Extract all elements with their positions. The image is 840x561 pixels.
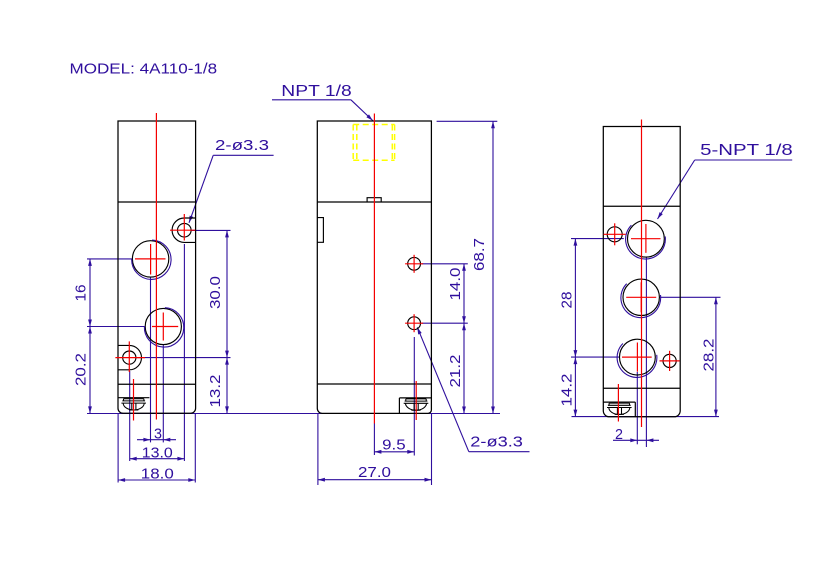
right view body [603, 127, 680, 417]
svg-text:2-ø3.3: 2-ø3.3 [470, 434, 523, 450]
label 2-dia3.3 middle [417, 327, 529, 451]
crosshair RT [631, 224, 661, 253]
thread arc H3 [144, 308, 183, 347]
svg-text:28: 28 [560, 292, 576, 309]
right small hole top-left [607, 227, 622, 242]
dim 2 [613, 258, 659, 448]
thread arc RT [626, 225, 666, 259]
dim 3 [137, 278, 176, 443]
middle left tab [317, 218, 323, 243]
right hole RB big bottom [620, 339, 656, 375]
hole H3 big lower [145, 308, 181, 344]
centerline right view [641, 120, 643, 428]
dim 20.2 [74, 327, 92, 414]
long bottom reference line (left/middle views) [87, 413, 500, 415]
svg-text:16: 16 [74, 285, 90, 302]
svg-text:27.0: 27.0 [358, 465, 391, 481]
crosshair H1 [170, 214, 195, 241]
label NPT 1/8 [272, 83, 373, 120]
svg-text:13.0: 13.0 [142, 446, 173, 462]
crosshair RM [626, 282, 656, 312]
dim 14.2 [560, 357, 578, 417]
centerline left view [155, 113, 157, 420]
dim 27.0 [318, 414, 432, 486]
crosshair M2 [405, 314, 423, 332]
middle view body [317, 121, 431, 413]
dim 21.2 [448, 323, 466, 413]
middle hole M1 [408, 257, 421, 270]
middle top notch [367, 198, 381, 202]
svg-text:21.2: 21.2 [448, 355, 464, 388]
svg-text:20.2: 20.2 [74, 353, 90, 386]
middle view manual override button [399, 398, 431, 413]
right hole RM big middle [623, 279, 659, 315]
dim 9.5 [374, 337, 414, 456]
dim 30.0 [136, 230, 231, 357]
crosshair H3 [152, 313, 178, 341]
svg-text:NPT 1/8: NPT 1/8 [281, 83, 351, 100]
dim 68.7 [437, 121, 498, 413]
crosshair STL [604, 223, 626, 245]
svg-text:68.7: 68.7 [472, 238, 488, 271]
left view body [118, 121, 196, 413]
crosshair RB [622, 343, 652, 372]
dim 14.0 [422, 264, 468, 323]
long bottom reference line (right view) [572, 416, 720, 418]
centerline right button [617, 384, 619, 422]
centerline middle button [415, 381, 417, 420]
crosshair M1 [405, 255, 423, 273]
right small hole bottom-right [663, 354, 676, 367]
svg-text:2: 2 [615, 427, 623, 443]
svg-text:2-ø3.3: 2-ø3.3 [215, 138, 269, 154]
svg-text:14.2: 14.2 [560, 374, 576, 407]
centerline middle view [373, 114, 375, 424]
label 5-NPT 1/8 [658, 142, 793, 219]
svg-text:30.0: 30.0 [208, 276, 224, 309]
crosshair H2 [135, 244, 166, 275]
dim 13.2 [208, 358, 229, 414]
hole H4 small left boss [118, 345, 142, 369]
left view manual override button [118, 398, 149, 410]
svg-text:MODEL: 4A110-1/8: MODEL: 4A110-1/8 [70, 61, 218, 78]
svg-text:18.0: 18.0 [141, 467, 174, 483]
svg-text:9.5: 9.5 [382, 438, 406, 454]
crosshair H4 [115, 341, 145, 372]
dim 13.0 [130, 244, 185, 462]
dim 16 [74, 259, 145, 327]
dim 28 [560, 239, 624, 358]
svg-text:3: 3 [154, 426, 162, 442]
hole H2 big upper [132, 241, 168, 277]
title MODEL: 4A110-1/8 [70, 61, 218, 78]
dim 18.0 [118, 414, 195, 483]
svg-text:13.2: 13.2 [208, 375, 224, 408]
hole H1 top small (2-dia3.3) [172, 218, 196, 242]
right view manual override button [603, 402, 635, 417]
svg-text:5-NPT 1/8: 5-NPT 1/8 [700, 142, 793, 159]
dim 28.2 [660, 297, 721, 416]
label 2-dia3.3 left [189, 138, 274, 223]
middle hole M2 [408, 317, 421, 330]
svg-text:28.2: 28.2 [702, 339, 718, 372]
yellow dashed NPT port [353, 125, 394, 161]
centerline left button [133, 379, 135, 421]
svg-text:14.0: 14.0 [448, 268, 464, 301]
thread arc RB [617, 344, 657, 378]
thread arc H2 [132, 240, 171, 279]
thread arc RM [621, 284, 661, 318]
right hole RT big top [628, 220, 665, 257]
crosshair SBR [660, 351, 680, 371]
